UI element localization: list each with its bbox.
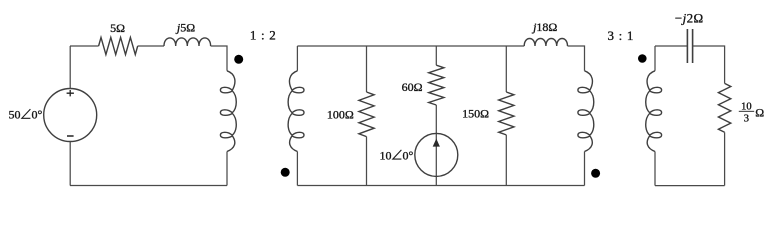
wire right loop bottom bbox=[655, 185, 725, 187]
resistor 150&#937; zigzag bbox=[499, 92, 514, 135]
svg-text:0°: 0° bbox=[403, 148, 414, 162]
svg-text:0°: 0° bbox=[32, 108, 43, 122]
wire between 5ohm and j5ohm bbox=[138, 45, 164, 47]
voltage source minus sign bbox=[67, 135, 74, 137]
transformer T1 secondary winding bbox=[288, 71, 304, 152]
svg-text:j5Ω: j5Ω bbox=[175, 20, 195, 34]
resistor R 5&#937; zigzag bbox=[99, 37, 138, 54]
wire 100ohm branch bottom lead bbox=[366, 137, 368, 186]
transformer T2 secondary winding bbox=[646, 71, 662, 152]
resistor 10/3 ohm zigzag bbox=[718, 83, 730, 132]
wire T1 secondary bottom lead bbox=[296, 152, 298, 186]
capacitor -j2ohm plates bbox=[686, 29, 688, 63]
wire bottom left loop bbox=[70, 185, 227, 187]
svg-text:60Ω: 60Ω bbox=[402, 80, 423, 94]
wire 150ohm branch bottom lead bbox=[505, 135, 507, 186]
transformer T1 primary winding bbox=[220, 71, 236, 152]
transformer T2 primary winding bbox=[578, 71, 594, 152]
wire top left segment bbox=[70, 45, 99, 47]
wire top right to transformer T1 primary bbox=[211, 46, 227, 71]
wire 100ohm branch top lead bbox=[366, 46, 368, 92]
wire T1 secondary top lead bbox=[296, 46, 298, 71]
wire middle bottom bus bbox=[297, 185, 584, 187]
svg-text:50: 50 bbox=[9, 108, 21, 122]
inductor j5&#937; bbox=[164, 38, 211, 46]
wire left vertical top (source to top wire) bbox=[69, 46, 71, 89]
svg-text:5Ω: 5Ω bbox=[110, 21, 125, 35]
wire right loop top right segment bbox=[693, 46, 725, 83]
wire 150ohm branch top lead bbox=[505, 46, 507, 92]
wire top right to transformer T2 primary bbox=[568, 46, 585, 71]
wire 60ohm to current source (passes through) bbox=[435, 105, 437, 186]
svg-text:j18Ω: j18Ω bbox=[531, 20, 557, 34]
svg-text:100Ω: 100Ω bbox=[327, 107, 354, 121]
inductor j18&#937; bbox=[524, 39, 567, 47]
wire T2 secondary bottom lead bbox=[654, 152, 656, 186]
svg-text:Ω: Ω bbox=[755, 106, 764, 120]
wire middle top bus bbox=[297, 45, 524, 47]
wire T2 secondary top lead bbox=[654, 46, 656, 71]
wire 60ohm branch top lead bbox=[435, 46, 437, 65]
voltage source Vs 50&#8736;0&#176; circle bbox=[44, 89, 97, 142]
svg-text:3: 3 bbox=[744, 114, 749, 125]
svg-text:10: 10 bbox=[741, 101, 752, 112]
wire right loop right bottom lead bbox=[724, 132, 726, 185]
current source arrowhead bbox=[433, 139, 440, 147]
dot T1 secondary (bottom) bbox=[281, 168, 290, 177]
svg-text:−j2Ω: −j2Ω bbox=[675, 10, 704, 25]
wire right loop top left segment bbox=[655, 45, 687, 47]
svg-text:3 : 1: 3 : 1 bbox=[607, 28, 634, 43]
wire T1 primary bottom lead bbox=[226, 152, 228, 186]
current source 10&#8736;0&#176; circle bbox=[415, 133, 458, 176]
svg-text:1 : 2: 1 : 2 bbox=[250, 27, 277, 42]
voltage source plus sign bbox=[67, 90, 74, 96]
svg-text:10: 10 bbox=[380, 148, 392, 162]
dot T1 primary (top) bbox=[234, 55, 243, 64]
wire T2 primary bottom lead bbox=[584, 152, 586, 186]
resistor 60&#937; zigzag bbox=[429, 65, 444, 105]
resistor 100&#937; zigzag bbox=[359, 92, 374, 137]
dot T2 primary (bottom) bbox=[591, 169, 600, 178]
svg-text:150Ω: 150Ω bbox=[462, 107, 489, 121]
dot T2 secondary (top) bbox=[638, 54, 647, 63]
wire left vertical bottom (source to bottom wire) bbox=[69, 142, 71, 186]
